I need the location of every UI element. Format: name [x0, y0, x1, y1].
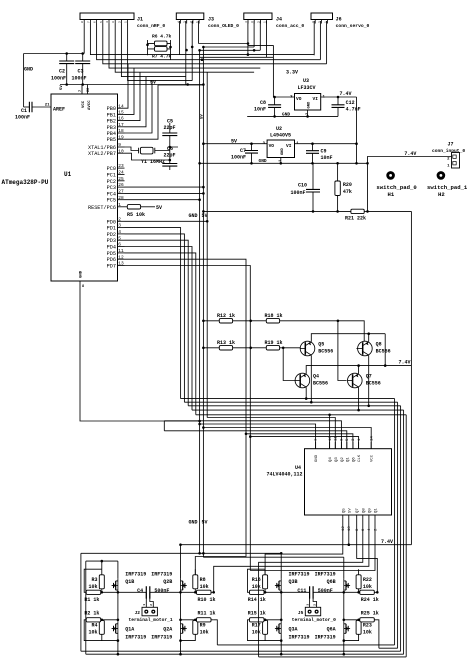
- svg-text:Q5: Q5: [318, 342, 324, 348]
- svg-text:PC3: PC3: [107, 185, 116, 191]
- svg-text:GND: GND: [259, 158, 267, 164]
- svg-text:10k: 10k: [363, 584, 372, 590]
- svg-text:16: 16: [118, 116, 124, 122]
- svg-text:H2: H2: [438, 191, 445, 198]
- svg-text:100nF: 100nF: [72, 76, 87, 82]
- svg-text:10k: 10k: [252, 584, 261, 590]
- svg-text:25: 25: [118, 176, 124, 182]
- wire U1 VCC AVCC drops: [82, 85, 88, 95]
- svg-text:R19 1k: R19 1k: [265, 340, 283, 346]
- svg-text:21: 21: [45, 104, 50, 108]
- wire U2 VI to 7.4V vertical: [295, 143, 357, 145]
- svg-text:4: 4: [245, 21, 248, 23]
- capacitor C9 10nF: [312, 144, 314, 164]
- svg-text:7: 7: [79, 90, 83, 92]
- resistor R16 10k: [263, 575, 268, 589]
- svg-text:100nF: 100nF: [290, 190, 305, 196]
- svg-text:Q8: Q8: [376, 342, 382, 348]
- wire collectors down: [306, 355, 369, 410]
- resistor R4 10k: [99, 620, 104, 634]
- wire Q2A cell: [181, 620, 214, 641]
- svg-text:10nF: 10nF: [254, 107, 266, 113]
- svg-text:R18 1k: R18 1k: [265, 313, 283, 319]
- svg-text:terminal_motor_1: terminal_motor_1: [129, 617, 173, 623]
- svg-text:R11 1k: R11 1k: [198, 610, 216, 616]
- svg-text:BC556: BC556: [318, 349, 333, 355]
- switch_pad_1 H2: [437, 171, 446, 180]
- wire 5V vertical mid: [202, 47, 204, 557]
- wire emitter rail lower: [306, 366, 411, 374]
- wire 7.4V bus to bridges: [181, 545, 412, 579]
- svg-text:IRF7319: IRF7319: [151, 635, 172, 641]
- wire gnd-left vertical: [23, 54, 25, 108]
- svg-text:14: 14: [118, 103, 124, 109]
- wire ladder J1-J3-J4-J6 top interconnect: [84, 21, 326, 85]
- capacitor C11 500nF: [310, 586, 314, 598]
- svg-text:5V: 5V: [348, 508, 352, 513]
- svg-text:Q2B: Q2B: [163, 579, 172, 585]
- capacitor C5 22pF: [162, 133, 177, 136]
- svg-text:500nF: 500nF: [154, 588, 169, 594]
- svg-text:74LV4040,112: 74LV4040,112: [267, 472, 303, 478]
- svg-text:7.4V: 7.4V: [404, 151, 416, 157]
- svg-text:IRF7319: IRF7319: [151, 572, 172, 578]
- svg-text:IRF7319: IRF7319: [125, 635, 146, 641]
- svg-text:Q8: Q8: [362, 508, 366, 513]
- svg-text:3: 3: [251, 21, 254, 23]
- svg-text:15: 15: [118, 110, 124, 116]
- svg-text:23: 23: [118, 163, 124, 169]
- svg-text:U4: U4: [295, 465, 301, 471]
- wire 7.4V vertical from U3: [356, 97, 358, 163]
- node 5V U2 input: [203, 143, 267, 145]
- wire J7 7.4V input: [368, 157, 452, 212]
- svg-text:Q1A: Q1A: [125, 626, 134, 632]
- svg-text:11: 11: [118, 248, 124, 254]
- svg-text:CLK: CLK: [358, 454, 362, 462]
- svg-text:18: 18: [118, 128, 124, 134]
- svg-text:PD0: PD0: [107, 219, 116, 225]
- switch_pad_0 H1: [386, 171, 395, 180]
- wire mid bus lines to right verticals: [181, 399, 407, 415]
- svg-text:PB2: PB2: [107, 119, 116, 125]
- svg-text:conn_OLED_0: conn_OLED_0: [208, 23, 239, 29]
- svg-text:J5: J5: [298, 610, 304, 616]
- svg-text:14: 14: [371, 436, 375, 441]
- svg-text:10k: 10k: [88, 629, 97, 635]
- svg-text:13: 13: [118, 261, 124, 267]
- capacitor C7 100nF: [251, 144, 253, 164]
- capacitor C3 100nF: [82, 54, 84, 85]
- transistor Q2B IRF7319: [181, 579, 187, 593]
- svg-text:R3: R3: [91, 577, 97, 583]
- wire PC3 PC4 PC5 to right: [125, 187, 204, 200]
- svg-text:H1: H1: [388, 191, 395, 198]
- svg-text:R13 1k: R13 1k: [217, 340, 235, 346]
- svg-text:IRF7319: IRF7319: [289, 635, 310, 641]
- svg-text:IRF7319: IRF7319: [315, 572, 336, 578]
- resistor R17 10k: [263, 620, 268, 634]
- svg-text:3: 3: [118, 223, 121, 229]
- svg-text:R20: R20: [343, 182, 352, 188]
- svg-text:R7 4.7k: R7 4.7k: [152, 54, 172, 60]
- svg-text:Q2: Q2: [341, 457, 345, 462]
- resistor R7 4.7k: [155, 47, 168, 52]
- wire GND vertical mid: [199, 50, 201, 553]
- svg-text:10nF: 10nF: [321, 155, 333, 161]
- svg-text:1: 1: [143, 604, 146, 606]
- transistor Q6A IRF7319: [344, 622, 350, 636]
- wire bottom bus lines: [81, 645, 406, 657]
- svg-text:AVCC: AVCC: [88, 100, 92, 110]
- svg-text:VO: VO: [296, 96, 302, 102]
- svg-text:conn_nRF_0: conn_nRF_0: [137, 23, 165, 29]
- svg-text:7.4V: 7.4V: [340, 91, 352, 97]
- svg-text:3.3V: 3.3V: [286, 70, 298, 76]
- wire PD staircase to mid bus columns: [125, 72, 251, 575]
- svg-text:20: 20: [87, 88, 91, 92]
- wire Q1B cell: [84, 569, 118, 592]
- svg-text:R23: R23: [363, 623, 372, 629]
- svg-text:RESET/PC6: RESET/PC6: [88, 205, 116, 211]
- svg-text:11: 11: [335, 436, 339, 441]
- wire PB staircase to ladder: [125, 64, 204, 139]
- svg-text:Q3: Q3: [335, 457, 339, 462]
- svg-text:500nF: 500nF: [318, 588, 333, 594]
- svg-text:R4: R4: [91, 623, 97, 629]
- svg-text:10k: 10k: [252, 629, 261, 635]
- transistor Q3B IRF7319: [275, 579, 281, 593]
- wire R18 to Q8 base: [280, 321, 365, 349]
- svg-text:R6 4.7k: R6 4.7k: [152, 34, 172, 40]
- svg-text:4: 4: [178, 21, 181, 23]
- wire U4 GND VCC feeds: [200, 424, 372, 449]
- wire R19 to Q5 base and Q4: [280, 348, 301, 381]
- svg-text:R25 1k: R25 1k: [361, 610, 379, 616]
- wire Q2B cell: [181, 569, 214, 592]
- svg-text:J4: J4: [276, 17, 282, 23]
- svg-text:R21 22k: R21 22k: [345, 216, 366, 222]
- svg-text:C9: C9: [321, 149, 327, 155]
- resistor R1 1k: [86, 590, 101, 594]
- svg-text:R24 1k: R24 1k: [361, 597, 379, 603]
- svg-text:switch_pad_0: switch_pad_0: [376, 184, 417, 191]
- svg-text:22pF: 22pF: [164, 153, 176, 159]
- svg-text:Q1: Q1: [346, 457, 350, 462]
- wire 5V feed to bridge: [203, 557, 343, 579]
- svg-text:GND: GND: [189, 213, 198, 219]
- svg-text:C8: C8: [260, 100, 266, 106]
- svg-text:PD5: PD5: [107, 251, 116, 257]
- svg-text:2: 2: [257, 21, 260, 23]
- svg-text:PC1: PC1: [107, 172, 116, 178]
- wire 3.3V from J4 to U3: [248, 45, 295, 97]
- svg-text:PD7: PD7: [107, 264, 116, 270]
- svg-text:3: 3: [184, 21, 187, 23]
- svg-text:switch_pad_1: switch_pad_1: [427, 184, 468, 191]
- resistor R22 10k: [356, 575, 361, 589]
- resistor R21 22k: [203, 210, 351, 212]
- svg-text:PB1: PB1: [107, 112, 116, 118]
- wire Q3B cell: [248, 569, 282, 592]
- svg-text:47k: 47k: [343, 189, 352, 195]
- transistor Q3A IRF7319: [275, 622, 281, 636]
- wire terminal_motor_1 output rows and columns: [118, 592, 181, 654]
- svg-text:3: 3: [312, 21, 315, 23]
- svg-text:VCC: VCC: [371, 454, 375, 462]
- svg-text:VI: VI: [313, 96, 319, 102]
- svg-text:10: 10: [118, 148, 124, 154]
- terminal J2: [142, 607, 157, 616]
- svg-text:U3: U3: [303, 78, 309, 84]
- svg-text:8: 8: [82, 285, 84, 289]
- svg-text:5V: 5V: [202, 213, 208, 219]
- svg-text:PB4: PB4: [107, 131, 116, 137]
- wire right bus columns: [395, 399, 407, 657]
- svg-text:Q9: Q9: [368, 508, 372, 513]
- svg-text:R17: R17: [252, 623, 261, 629]
- svg-text:4: 4: [106, 21, 109, 23]
- svg-text:10k: 10k: [200, 629, 209, 635]
- terminal J5: [305, 607, 320, 616]
- wire Q6A cell: [344, 620, 377, 641]
- svg-text:PC0: PC0: [107, 166, 116, 172]
- svg-text:R22: R22: [363, 577, 372, 583]
- resistor R2 1k: [86, 618, 101, 622]
- svg-text:ATmega328P-PU: ATmega328P-PU: [2, 179, 49, 186]
- transistor Q7 BC556: [348, 373, 363, 388]
- svg-text:C2: C2: [59, 69, 65, 75]
- svg-text:100nF: 100nF: [231, 155, 246, 161]
- svg-text:terminal_motor_0: terminal_motor_0: [292, 617, 336, 623]
- connector J3: [176, 13, 204, 24]
- capacitor C12 4.7nF: [337, 97, 339, 116]
- svg-text:8: 8: [81, 21, 84, 23]
- svg-text:1: 1: [196, 21, 199, 23]
- svg-text:5: 5: [118, 235, 121, 241]
- svg-text:100nF: 100nF: [51, 76, 66, 82]
- svg-text:5V: 5V: [150, 80, 156, 86]
- svg-text:GND: GND: [315, 454, 319, 462]
- svg-text:Q3A: Q3A: [289, 626, 298, 632]
- node GND top-left rail: [24, 53, 85, 55]
- svg-text:VI: VI: [286, 143, 292, 149]
- wire U1 GND down-around to mid bus: [80, 286, 200, 422]
- svg-text:Q7: Q7: [356, 508, 360, 513]
- svg-text:2: 2: [118, 21, 121, 23]
- resistor R3 10k: [99, 575, 104, 589]
- crystal Y1 16MHz: [140, 147, 153, 154]
- svg-text:GND: GND: [308, 101, 312, 109]
- svg-text:BC556: BC556: [366, 381, 381, 387]
- connector J1: [80, 13, 134, 24]
- svg-text:J2: J2: [135, 610, 141, 616]
- resistor R24 1k: [360, 590, 375, 594]
- svg-text:GND: GND: [80, 270, 84, 278]
- U4 bottom pins: [342, 508, 378, 531]
- svg-text:26: 26: [118, 182, 124, 188]
- svg-text:13: 13: [329, 436, 333, 441]
- svg-text:PD1: PD1: [107, 226, 116, 232]
- svg-text:1: 1: [125, 21, 128, 23]
- wire inner loop left riser: [86, 561, 118, 654]
- svg-text:C10: C10: [298, 183, 307, 189]
- wire U3 gnd pin: [307, 110, 309, 116]
- svg-text:C1: C1: [21, 108, 27, 114]
- svg-text:Q5: Q5: [342, 508, 346, 513]
- svg-text:R9: R9: [200, 623, 206, 629]
- resistor R5 10k on RESET: [125, 206, 128, 208]
- svg-text:5: 5: [100, 21, 103, 23]
- svg-text:J6: J6: [336, 17, 342, 23]
- capacitor C8 10nF: [274, 97, 276, 116]
- svg-text:2: 2: [313, 604, 316, 606]
- svg-text:9: 9: [118, 142, 121, 148]
- capacitor C1 100nF: [24, 106, 30, 108]
- svg-text:J7: J7: [448, 142, 454, 148]
- svg-text:24: 24: [118, 170, 124, 176]
- svg-text:4: 4: [118, 229, 121, 235]
- svg-text:R15 1k: R15 1k: [248, 610, 266, 616]
- svg-text:2: 2: [190, 21, 193, 23]
- svg-text:5V: 5V: [231, 139, 237, 145]
- svg-text:12: 12: [118, 254, 124, 260]
- svg-text:2: 2: [150, 604, 153, 606]
- capacitor C10 100nF: [312, 163, 314, 211]
- svg-text:1: 1: [118, 202, 121, 208]
- svg-text:5V: 5V: [156, 205, 162, 211]
- resistor R15 1k: [250, 618, 265, 622]
- svg-text:27: 27: [118, 189, 124, 195]
- svg-text:C12: C12: [346, 100, 355, 106]
- svg-text:R16: R16: [252, 577, 261, 583]
- op-amp U1 ATmega328P-PU main IC: [51, 94, 118, 281]
- svg-text:22pF: 22pF: [164, 125, 176, 131]
- svg-text:R2 1k: R2 1k: [84, 610, 99, 616]
- svg-text:R10 1k: R10 1k: [198, 597, 216, 603]
- svg-text:R1 1k: R1 1k: [84, 597, 99, 603]
- wire 7.4V long vertical right: [368, 211, 412, 544]
- wire U1 GND pin down: [79, 281, 81, 286]
- svg-text:XTAL2/PB7: XTAL2/PB7: [88, 151, 116, 157]
- ground rail U2: [200, 162, 368, 164]
- transistor Q4 BC556: [295, 373, 310, 388]
- svg-text:Q3B: Q3B: [289, 579, 298, 585]
- svg-text:1: 1: [264, 21, 267, 23]
- resistor R11 1k: [197, 618, 212, 622]
- wire R11 R25 wrap to bottom bus: [214, 620, 379, 648]
- svg-text:PD4: PD4: [107, 245, 116, 251]
- svg-text:L4940V5: L4940V5: [270, 133, 291, 139]
- ground rail U3: [247, 115, 338, 117]
- svg-text:Q1: Q1: [375, 508, 379, 513]
- op-amp U4 74LV4040,112 counter IC: [305, 449, 392, 515]
- svg-text:2: 2: [118, 216, 121, 222]
- wire Q7 base feed: [338, 321, 347, 381]
- node 5V rail above U1: [60, 84, 203, 86]
- wire GND outer loop feed: [81, 553, 281, 651]
- transistor Q1A IRF7319: [112, 622, 118, 636]
- svg-text:IRF7319: IRF7319: [125, 572, 146, 578]
- resistor R8 10k: [193, 575, 198, 589]
- svg-text:C7: C7: [240, 148, 246, 154]
- svg-text:Q4: Q4: [329, 457, 333, 462]
- connector J6: [311, 13, 333, 24]
- U1 pin stubs and labels: [88, 103, 125, 269]
- wire U4 top pin feeds: [164, 415, 358, 449]
- wire Q3A cell: [248, 620, 282, 641]
- svg-text:R5 10k: R5 10k: [127, 212, 145, 218]
- transistor Q5 BC556: [300, 341, 315, 356]
- svg-text:5V: 5V: [202, 520, 208, 526]
- svg-text:GND: GND: [281, 147, 285, 155]
- svg-text:GND: GND: [24, 67, 33, 73]
- svg-text:3: 3: [112, 21, 115, 23]
- svg-text:6: 6: [118, 242, 121, 248]
- svg-text:PD6: PD6: [107, 257, 116, 263]
- svg-text:J3: J3: [208, 17, 214, 23]
- transistor Q6B IRF7319: [344, 579, 350, 593]
- wire Q6B cell: [344, 569, 377, 592]
- svg-text:IRF7319: IRF7319: [315, 635, 336, 641]
- svg-text:VO: VO: [269, 143, 275, 149]
- svg-text:C11: C11: [297, 588, 306, 594]
- svg-text:GND: GND: [282, 112, 290, 118]
- svg-text:conn_servo_0: conn_servo_0: [336, 23, 370, 29]
- svg-text:PC4: PC4: [107, 191, 116, 197]
- svg-text:10k: 10k: [200, 584, 209, 590]
- svg-text:PB3: PB3: [107, 125, 116, 131]
- svg-text:J1: J1: [137, 17, 143, 23]
- U4 top pins: [315, 436, 375, 462]
- svg-text:BC556: BC556: [313, 381, 328, 387]
- wire U4 bottom staircase outputs: [214, 522, 378, 657]
- resistor R25 1k: [360, 618, 375, 622]
- svg-text:XTAL1/PB6: XTAL1/PB6: [88, 145, 116, 151]
- svg-text:10k: 10k: [363, 629, 372, 635]
- svg-text:6: 6: [94, 21, 97, 23]
- transistor Q1B IRF7319: [112, 579, 118, 593]
- svg-text:100nF: 100nF: [15, 115, 30, 121]
- svg-text:7.4V: 7.4V: [399, 360, 411, 366]
- connector J4: [244, 13, 272, 24]
- svg-text:GND: GND: [189, 520, 198, 526]
- svg-text:conn_acc_0: conn_acc_0: [276, 23, 304, 29]
- svg-text:conn_input_0: conn_input_0: [432, 148, 465, 154]
- svg-text:R12 1k: R12 1k: [217, 313, 235, 319]
- svg-text:C3: C3: [78, 69, 84, 75]
- resistor R20 47k: [337, 163, 339, 211]
- resistor R14 1k: [250, 590, 265, 594]
- svg-text:R14 1k: R14 1k: [248, 597, 266, 603]
- svg-text:4.7nF: 4.7nF: [346, 107, 361, 113]
- svg-text:U1: U1: [64, 171, 72, 178]
- svg-text:Q4: Q4: [313, 374, 319, 380]
- transistor Q2A IRF7319: [181, 622, 187, 636]
- svg-text:Q1B: Q1B: [125, 579, 134, 585]
- svg-text:U2: U2: [276, 126, 282, 132]
- wire Q1A cell: [84, 620, 118, 641]
- svg-text:1: 1: [306, 604, 309, 606]
- svg-text:PD3: PD3: [107, 238, 116, 244]
- svg-text:PB5: PB5: [107, 137, 116, 143]
- svg-text:1: 1: [325, 21, 328, 23]
- svg-text:19: 19: [118, 134, 124, 140]
- svg-text:5V: 5V: [60, 85, 64, 90]
- capacitor C4 500nF: [146, 586, 150, 598]
- svg-text:17: 17: [118, 122, 124, 128]
- transistor Q8 BC556: [358, 341, 373, 356]
